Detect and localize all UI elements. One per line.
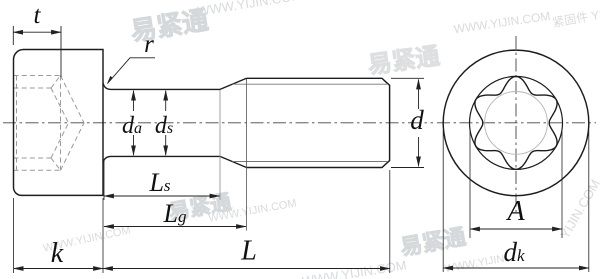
svg-text:A: A [505, 196, 525, 227]
thread runout top [220, 78, 247, 89]
centerline side view [3, 122, 433, 124]
watermark center [167, 180, 297, 232]
socket inner bottom line [14, 157, 52, 159]
watermark 易紧通 top center [128, 0, 305, 46]
watermark bottom left [42, 224, 132, 254]
hidden socket outline (dashed) in head [14, 76, 85, 171]
socket cone top [61, 76, 85, 123]
end view centerlines [437, 122, 596, 124]
socket near-face vertical [16, 76, 18, 171]
head outline [14, 50, 104, 196]
dim ds [165, 91, 167, 156]
ext line Lg [246, 79, 248, 231]
socket outer bottom line [14, 169, 61, 171]
socket hex corner edge top [51, 76, 61, 89]
svg-text:t: t [34, 2, 42, 29]
watermark top right [364, 9, 556, 80]
dim Ls [104, 195, 220, 197]
watermark right edge [557, 177, 600, 241]
dim d right [391, 78, 424, 167]
svg-text:d: d [410, 105, 424, 135]
svg-text:da: da [122, 113, 142, 139]
dim t [13, 26, 61, 77]
ext lines k and L [14, 170, 390, 273]
ext line Ls [219, 90, 221, 200]
dim A [470, 128, 562, 238]
svg-text:WWW.YIJIN.COM: WWW.YIJIN.COM [453, 9, 551, 36]
dim Lg [104, 226, 246, 228]
watermark above dk left [444, 253, 506, 275]
torx recess profile [475, 76, 557, 169]
thread runout bottom [220, 156, 247, 167]
svg-text:紧固件 YIJIN: 紧固件 YIJIN [551, 4, 600, 30]
fillet + shank top line [103, 83, 220, 89]
dim L [103, 268, 390, 270]
svg-text:k: k [51, 238, 64, 269]
leader r [108, 58, 156, 84]
socket chamfer circle [470, 76, 563, 169]
svg-text:易紧通: 易紧通 [398, 224, 467, 260]
socket bottom vertical [60, 76, 62, 171]
dim dk [443, 130, 589, 272]
thread major outline [247, 78, 390, 167]
svg-text:L: L [240, 236, 257, 267]
dim k [14, 268, 103, 270]
socket inner cone bottom [51, 123, 69, 158]
svg-text:WWW.YIJIN: WWW.YIJIN [444, 253, 506, 275]
svg-text:ds: ds [155, 113, 173, 139]
thread minor line bottom [233, 161, 389, 163]
dim da [133, 91, 135, 156]
socket hex corner edge bottom [51, 158, 61, 170]
svg-text:YIJIN.COM: YIJIN.COM [557, 177, 600, 241]
socket outer top line [14, 75, 61, 77]
watermark top corner [551, 4, 600, 30]
svg-text:r: r [144, 31, 154, 58]
socket cone bottom [61, 123, 85, 170]
watermark bottom center [301, 257, 407, 279]
svg-text:dk: dk [503, 237, 525, 267]
fillet + shank bottom line [103, 156, 220, 162]
svg-text:WWW.YIJIN.COM: WWW.YIJIN.COM [196, 0, 302, 19]
socket inner cone top [51, 88, 69, 123]
socket inner top line [14, 87, 52, 89]
inscribed gray circle [485, 92, 548, 155]
svg-text:易紧通: 易紧通 [366, 43, 441, 80]
watermark bottom left corner 易紧通 [398, 224, 467, 260]
head outer circle [443, 50, 589, 196]
svg-text:Ls: Ls [148, 168, 170, 197]
thread minor line top [233, 83, 389, 85]
